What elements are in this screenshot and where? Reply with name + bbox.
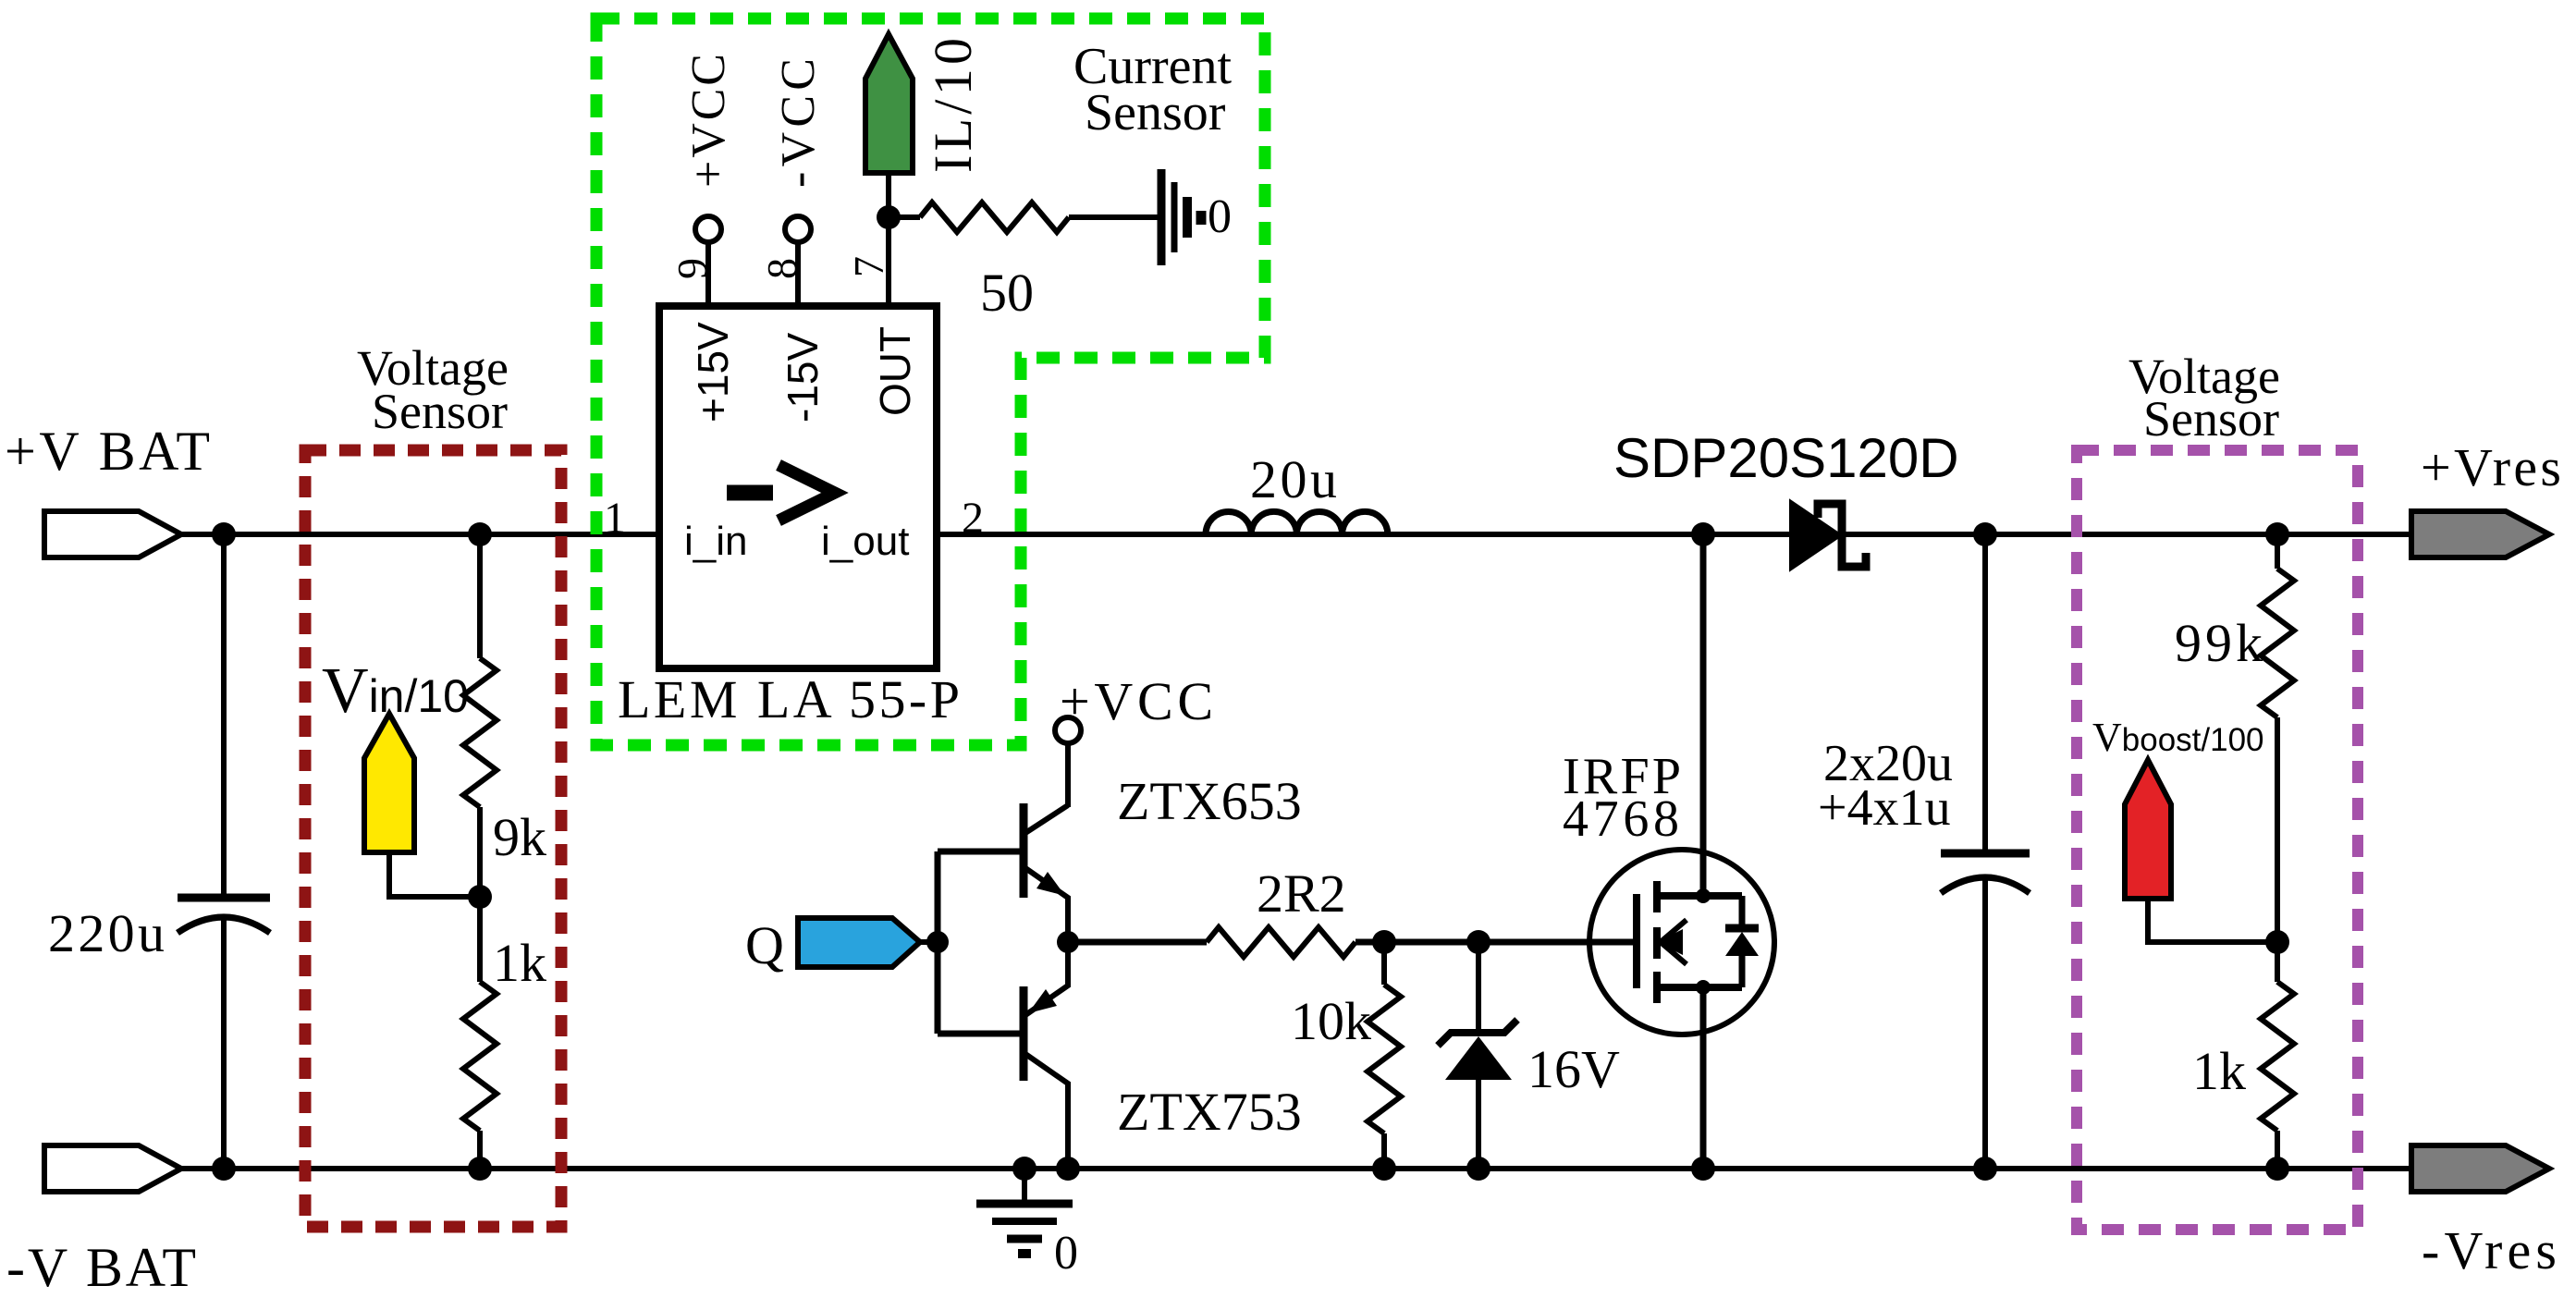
junction dot emitters node [1057, 931, 1079, 953]
LEM LA 55-P box U1 [659, 306, 937, 668]
resistor 1k lead top [477, 897, 483, 982]
wire Q probe to node [920, 939, 938, 945]
pin 8 circle [785, 216, 811, 242]
junction dot divider middle [468, 885, 492, 909]
svg-text:0: 0 [1208, 190, 1232, 243]
terminal -V BAT [44, 1145, 181, 1192]
junction dot bottom rail at PNP collector [1056, 1157, 1080, 1181]
pin 7 wire [886, 173, 891, 306]
wire emitters to 2R2 [1068, 939, 1207, 946]
capacitor 2x20u wire top [1982, 534, 1988, 850]
svg-text:LEM LA 55-P: LEM LA 55-P [618, 669, 960, 729]
voltage sensor box right (purple dashed) [2077, 450, 2358, 1230]
svg-text:2: 2 [962, 494, 984, 543]
resistor 1k zigzag [463, 982, 497, 1131]
svg-text:9k: 9k [493, 807, 546, 867]
ground 0 (rotated bars, current sensor) [1158, 169, 1166, 265]
mosfet gate bar [1633, 894, 1640, 988]
mosfet body diode wire top [1739, 896, 1746, 926]
svg-text:99k: 99k [2175, 613, 2263, 673]
mosfet channel segment top [1653, 881, 1661, 912]
wire probe Vboost stem [2148, 899, 2277, 942]
capacitor 2x20u wire bottom [1982, 879, 1988, 1169]
gate probe Q (blue) [798, 918, 920, 967]
junction dot mosfet drain [1696, 888, 1711, 903]
svg-text:1: 1 [604, 494, 626, 543]
wire bottom rail [179, 1166, 2411, 1171]
ground 0 (driver) stub [1022, 1169, 1027, 1200]
transistor Q2 collector [1025, 1054, 1068, 1169]
junction dot bottom rail at divider [468, 1157, 492, 1181]
capacitor 220u plate top [178, 894, 270, 902]
capacitor 2x20u plate top [1941, 850, 2030, 858]
transistor Q1 emitter [1025, 868, 1068, 942]
resistor 99k lead bottom [2275, 717, 2280, 942]
svg-text:0: 0 [1054, 1227, 1078, 1280]
svg-text:8: 8 [758, 258, 805, 279]
zener 16V wire top [1476, 942, 1481, 1033]
resistor 50 zigzag [920, 202, 1069, 232]
ground 0 (driver) bars [976, 1200, 1073, 1208]
pin 8 stub [795, 242, 801, 306]
svg-text:+15V: +15V [689, 322, 737, 422]
mosfet source wire [1700, 987, 1707, 1169]
svg-text:OUT: OUT [871, 326, 919, 416]
mosfet drain wire [1700, 534, 1707, 896]
zener 16V cathode bar (bent) [1438, 1020, 1517, 1046]
resistor 9k lead top [477, 534, 483, 658]
junction dot mosfet source [1696, 980, 1711, 995]
resistor 9k lead bottom [477, 807, 483, 897]
junction dot bottom rail at 1k right [2265, 1157, 2289, 1181]
current probe IL/10 (green) [865, 34, 913, 173]
svg-text:Q: Q [745, 915, 784, 975]
junction dot bottom rail at mosfet [1691, 1157, 1715, 1181]
mosfet Q3 IRFP4768 circle [1589, 850, 1774, 1035]
resistor 2R2 zigzag [1207, 927, 1355, 957]
wire top rail left [179, 532, 659, 537]
wire top rail right [937, 532, 2411, 537]
capacitor 220u wire bottom [221, 919, 227, 1169]
base bracket vertical [935, 851, 941, 1034]
svg-text:Sensor: Sensor [372, 384, 508, 439]
junction dot top rail at divider [468, 522, 492, 546]
wire 2R2 to 10k node [1355, 939, 1478, 946]
junction dot 10k node [1372, 930, 1396, 954]
mosfet body arrow head [1657, 929, 1683, 955]
resistor 1k lead bottom [477, 1131, 483, 1169]
zener 16V triangle [1445, 1036, 1512, 1080]
zener 16V wire bottom [1476, 1080, 1481, 1169]
junction dot bottom rail at zener [1466, 1157, 1490, 1181]
resistor 10k zigzag [1368, 985, 1401, 1133]
junction dot top rail at 220u [212, 522, 236, 546]
resistor 9k zigzag [463, 658, 497, 807]
svg-text:ZTX653: ZTX653 [1117, 771, 1302, 831]
resistor 50 lead right [1069, 214, 1161, 220]
svg-text:+4x1u: +4x1u [1818, 779, 1951, 837]
svg-text:-V BAT: -V BAT [6, 1237, 196, 1298]
wire +VCC to collector [1065, 743, 1071, 807]
svg-text:-15V: -15V [779, 333, 827, 422]
junction dot zener node [1466, 930, 1490, 954]
arrow symbol inside LEM box [727, 485, 773, 501]
svg-text:1k: 1k [493, 933, 546, 993]
junction dot bottom rail at 220u [212, 1157, 236, 1181]
mosfet channel segment bottom [1653, 972, 1661, 1003]
svg-text:+VCC: +VCC [682, 54, 735, 188]
junction dot pin 7 [877, 205, 901, 229]
junction dot at diode anode node [1691, 522, 1715, 546]
junction dot top rail at cap [1973, 522, 1997, 546]
svg-text:ZTX753: ZTX753 [1117, 1082, 1302, 1142]
voltage probe Vin/10 (yellow) [364, 714, 414, 852]
mosfet body diode triangle [1725, 932, 1759, 956]
svg-text:i_in: i_in [684, 519, 748, 564]
mosfet channel segment middle [1653, 927, 1661, 959]
svg-text:Sensor: Sensor [2143, 391, 2279, 447]
resistor 1k right lead bottom [2275, 1131, 2280, 1169]
terminal +V BAT [44, 511, 181, 557]
mosfet body diode cathode bar [1725, 925, 1759, 933]
junction dot Q node [926, 931, 949, 953]
terminal +Vres [2411, 511, 2549, 557]
transistor Q1 ZTX653 base bar [1020, 803, 1028, 898]
svg-text:2R2: 2R2 [1257, 863, 1346, 924]
transistor Q1 emitter arrow [1037, 872, 1065, 896]
transistor Q2 ZTX753 base bar [1020, 986, 1028, 1081]
junction dot bottom rail at 10k [1372, 1157, 1396, 1181]
junction dot bottom rail at cap [1973, 1157, 1997, 1181]
wire gate lead [1478, 939, 1633, 946]
diode SDP20S120D triangle [1791, 502, 1840, 569]
transistor Q2 emitter arrow [1028, 989, 1057, 1013]
svg-text:7: 7 [845, 256, 892, 277]
svg-text:16V: 16V [1527, 1039, 1620, 1099]
inductor 20u [1206, 511, 1388, 534]
mosfet body diode wire bottom [1739, 956, 1746, 987]
diode cathode bar with schottky hooks [1818, 504, 1866, 567]
svg-text:Sensor: Sensor [1085, 84, 1226, 141]
current sensor box (green dashed, L-shape) [596, 18, 1265, 745]
junction dot divider right middle [2265, 930, 2289, 954]
capacitor 220u plate bottom arc [178, 917, 270, 933]
svg-text:20u: 20u [1250, 449, 1337, 509]
mosfet body arrow shafts [1662, 920, 1687, 941]
base wire Q1 [938, 849, 1021, 855]
terminal -Vres [2411, 1145, 2549, 1192]
svg-text:+VCC: +VCC [1060, 671, 1213, 731]
wire probe Vin stem [389, 852, 480, 897]
svg-text:SDP20S120D: SDP20S120D [1613, 427, 1959, 489]
transistor Q1 collector [1025, 805, 1068, 833]
resistor 1k right zigzag [2261, 982, 2294, 1131]
voltage sensor box (dark red dashed) [305, 450, 561, 1227]
capacitor 2x20u plate bottom arc [1941, 877, 2030, 893]
transistor Q2 emitter [1025, 942, 1068, 1015]
pin 9 circle [695, 216, 721, 242]
mosfet source horizontal [1657, 984, 1742, 991]
svg-text:50: 50 [980, 263, 1034, 323]
svg-text:1k: 1k [2192, 1041, 2246, 1101]
pin 9 stub [705, 242, 711, 306]
capacitor 220u wire top [221, 534, 227, 894]
svg-text:Vboost/100: Vboost/100 [2092, 715, 2264, 760]
svg-text:i_out: i_out [821, 519, 909, 564]
resistor 10k lead bottom [1381, 1133, 1387, 1169]
junction dot bottom rail at ground [1012, 1157, 1037, 1181]
resistor 50 lead left [889, 214, 920, 220]
svg-text:+V BAT: +V BAT [5, 421, 210, 482]
resistor 99k lead top [2275, 534, 2280, 569]
resistor 10k lead top [1381, 942, 1387, 985]
voltage probe Vboost/100 (red) [2125, 760, 2171, 899]
pin circle +VCC [1055, 717, 1081, 743]
resistor 1k right lead top [2275, 942, 2280, 982]
junction dot top rail at 99k [2265, 522, 2289, 546]
svg-text:10k: 10k [1291, 991, 1371, 1051]
mosfet drain horizontal [1657, 892, 1742, 900]
svg-text:9: 9 [669, 258, 716, 279]
resistor 99k zigzag [2261, 569, 2294, 717]
base wire Q2 [938, 1031, 1021, 1037]
